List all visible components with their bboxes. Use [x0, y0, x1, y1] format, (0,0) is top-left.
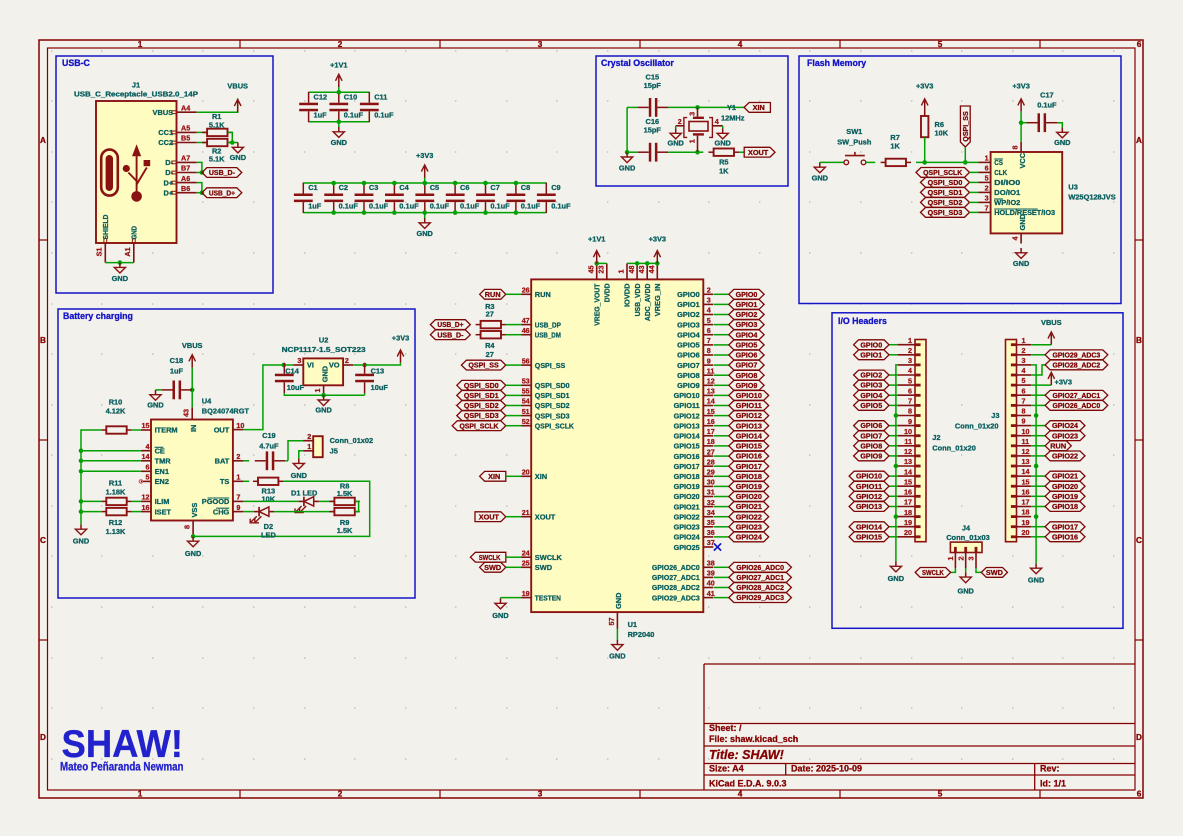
wire D+ B6 [197, 192, 202, 194]
junction C16 gnd [625, 150, 630, 155]
wire J2 pin6 [889, 394, 898, 396]
svg-text:GPIO4: GPIO4 [736, 330, 759, 339]
svg-text:+1V1: +1V1 [588, 234, 605, 243]
U1 pin 14 GPIO11 [674, 397, 715, 411]
svg-text:USB_DM: USB_DM [535, 330, 561, 339]
svg-text:27: 27 [486, 310, 494, 319]
U1 pin 19 TESTEN [521, 589, 561, 603]
resistor R7 [881, 133, 911, 166]
svg-text:A: A [40, 136, 46, 145]
LED D2 [250, 507, 276, 540]
U1 pin 48 USB_VDD [627, 263, 642, 316]
svg-text:34: 34 [707, 508, 715, 517]
J1 pin A4 VBUS [153, 103, 197, 117]
svg-text:16: 16 [904, 488, 912, 497]
net label USB_D+ (USB-C) [202, 188, 242, 198]
svg-text:NCP1117-1.5_SOT223: NCP1117-1.5_SOT223 [282, 345, 366, 354]
junction J1 gnd [118, 260, 123, 265]
svg-text:20: 20 [1022, 528, 1030, 537]
wire QSPI_SD1 to U3 [970, 191, 979, 193]
svg-text:GPIO24: GPIO24 [1052, 421, 1079, 430]
U1 pin 18 GPIO15 [674, 437, 715, 451]
U1 pin 23 DVDD [597, 263, 612, 302]
svg-text:IOVDD: IOVDD [623, 283, 632, 307]
svg-text:GPIO27_ADC1: GPIO27_ADC1 [736, 573, 784, 582]
U1 pin 21 XOUT [521, 508, 556, 522]
svg-text:C6: C6 [460, 183, 469, 192]
ground J4 [957, 572, 974, 595]
wire J2 pin13 gnd [896, 465, 898, 467]
wire J2 pin5 [889, 384, 898, 386]
svg-text:J4: J4 [962, 524, 971, 533]
svg-text:19: 19 [1022, 518, 1030, 527]
svg-text:GPIO17: GPIO17 [736, 462, 762, 471]
crystal pin 3 [687, 107, 697, 116]
svg-text:GPIO18: GPIO18 [736, 472, 762, 481]
svg-text:40: 40 [707, 579, 715, 588]
svg-text:VCC: VCC [1018, 152, 1027, 168]
U1 pin 7 GPIO5 [677, 336, 713, 350]
svg-text:18: 18 [904, 508, 912, 517]
svg-text:QSPI_SD3: QSPI_SD3 [928, 208, 963, 217]
U1 pin 37 GPIO25 [674, 538, 715, 552]
svg-text:GPIO13: GPIO13 [856, 502, 882, 511]
svg-text:1: 1 [946, 557, 955, 561]
svg-text:56: 56 [522, 356, 530, 365]
svg-text:4: 4 [908, 366, 912, 375]
svg-text:8: 8 [1011, 146, 1020, 150]
svg-text:+3V3: +3V3 [1012, 82, 1029, 91]
svg-text:W25Q128JVS: W25Q128JVS [1068, 192, 1115, 201]
svg-text:GPIO23: GPIO23 [674, 523, 700, 532]
wire GPIO28_ADC2 [714, 587, 729, 589]
wire R4 to USB_DM [506, 334, 521, 336]
J2 pin 2 [898, 346, 915, 355]
net label USB_D- (USB-C) [202, 168, 242, 178]
junction 3V3 c [655, 261, 660, 266]
net label GPIO18 (J3) [1045, 502, 1085, 512]
junction +1V1 top [337, 90, 342, 95]
U1 pin 53 QSPI_SD0 [521, 377, 570, 391]
svg-text:14: 14 [707, 397, 715, 406]
svg-text:3: 3 [538, 790, 543, 799]
svg-text:VBUS: VBUS [153, 108, 174, 117]
svg-text:J5: J5 [330, 447, 338, 456]
svg-text:C5: C5 [430, 183, 439, 192]
junction top rail [392, 181, 397, 186]
svg-text:QSPI_SD1: QSPI_SD1 [928, 188, 963, 197]
svg-text:USB_VDD: USB_VDD [633, 283, 642, 317]
net label USB_D+ (U1) [430, 320, 470, 330]
svg-text:39: 39 [707, 569, 715, 578]
junction bottom rail [362, 210, 367, 215]
junction top rail [514, 181, 519, 186]
svg-text:20: 20 [904, 528, 912, 537]
svg-text:GPIO18: GPIO18 [1052, 502, 1078, 511]
net label GPIO11 (J2) [849, 481, 889, 491]
logo SHAW! [60, 723, 184, 774]
resistor R4 [476, 331, 506, 359]
svg-text:0.1uF: 0.1uF [430, 201, 450, 210]
svg-text:QSPI_SD2: QSPI_SD2 [535, 401, 570, 410]
svg-text:1uF: 1uF [170, 367, 184, 376]
wire +3V3 top rail [303, 182, 546, 184]
wire bottom rail U2 [284, 393, 364, 395]
U2 pin 3 VI [293, 356, 314, 370]
capacitor C2 [324, 183, 358, 213]
svg-text:QSPI_SCLK: QSPI_SCLK [535, 421, 575, 430]
J3 pin 10 [1017, 427, 1032, 436]
resistor R13 [253, 478, 283, 504]
U1 ref text [628, 620, 655, 639]
svg-text:GND: GND [888, 574, 905, 583]
svg-text:C11: C11 [374, 92, 387, 101]
net label GPIO27_ADC1 (J3) [1045, 390, 1108, 400]
U4 pin 7 PGOOD [202, 493, 243, 507]
svg-text:2: 2 [236, 452, 240, 461]
wire J4 pin3 SWD [976, 568, 981, 572]
svg-text:C14: C14 [285, 367, 299, 376]
U1 pin 4 GPIO2 [677, 306, 713, 320]
wire U1 left k10 [506, 394, 521, 396]
svg-text:0.1uF: 0.1uF [490, 201, 510, 210]
svg-text:C: C [1136, 536, 1142, 545]
svg-text:1.13K: 1.13K [106, 527, 126, 536]
J3 pin 8 [1017, 407, 1032, 416]
U3 pin 1 CS [979, 154, 1003, 168]
svg-text:XOUT: XOUT [748, 148, 769, 157]
svg-text:QSPI_SCLK: QSPI_SCLK [923, 168, 963, 177]
wire J2 pin20 [889, 536, 898, 538]
U1 pin 6 GPIO4 [677, 326, 713, 340]
wire GPIO3 [714, 324, 729, 326]
U3 pin 8 VCC [1011, 142, 1027, 169]
wire J3 pin4 jog to GPIO28_ADC2 [1031, 365, 1045, 375]
svg-text:48: 48 [627, 266, 636, 274]
svg-text:9: 9 [1022, 417, 1026, 426]
net label GPIO28_ADC2 (U1) [729, 583, 792, 593]
wire J2 pin8 gnd [896, 415, 898, 417]
net label XOUT (crystal) [744, 147, 775, 157]
wire J5 pin1 gnd [299, 451, 303, 459]
svg-text:GPIO1: GPIO1 [677, 300, 700, 309]
svg-text:GND: GND [609, 651, 626, 660]
svg-text:0.1uF: 0.1uF [1037, 101, 1057, 110]
wire to R5 [698, 151, 704, 153]
svg-text:GPIO7: GPIO7 [677, 361, 700, 370]
section box Crystal Oscillator [596, 56, 788, 186]
J3 pin 3 [1017, 356, 1032, 365]
J1 pin B6 D+ [163, 184, 196, 198]
svg-text:B: B [1136, 336, 1142, 345]
wire J3 pin17 [1031, 506, 1045, 508]
svg-text:C19: C19 [262, 431, 276, 440]
LED D1 [291, 488, 319, 512]
U1 pin 3 GPIO1 [677, 296, 713, 310]
svg-text:GND: GND [957, 587, 974, 596]
U1 pin 28 GPIO17 [674, 457, 715, 471]
resistor R10 [101, 397, 131, 433]
J3 pin 7 [1017, 397, 1032, 406]
U1 pin 27 GPIO16 [674, 447, 715, 461]
junction QSPI_SS [963, 160, 968, 165]
svg-text:7: 7 [236, 493, 240, 502]
svg-text:19: 19 [904, 518, 912, 527]
junction U2 gnd [321, 393, 326, 398]
wire +1V1 rail U1 [597, 262, 607, 264]
junction J3 pin18 [1034, 514, 1039, 519]
charger U4 body [151, 420, 233, 521]
svg-text:GND: GND [619, 163, 636, 172]
power +3V3 U3 [1012, 82, 1029, 112]
connector J4 body [946, 524, 990, 553]
wire J2 pin10 [889, 435, 898, 437]
resistor R3 [476, 302, 506, 328]
svg-text:QSPI_SCLK: QSPI_SCLK [459, 421, 499, 430]
J3 pin 19 [1017, 518, 1032, 527]
svg-text:GPIO3: GPIO3 [677, 320, 700, 329]
svg-text:GPIO20: GPIO20 [736, 492, 762, 501]
capacitor C7 [476, 183, 510, 213]
svg-text:GPIO10: GPIO10 [856, 472, 882, 481]
U3 ref text [1068, 182, 1115, 201]
net label GPIO29_ADC3 (J3) [1045, 350, 1108, 360]
wire GPIO0 [714, 293, 729, 295]
svg-text:Mateo Peñaranda Newman: Mateo Peñaranda Newman [60, 759, 184, 773]
svg-text:12: 12 [1022, 447, 1030, 456]
crystal Y1 [684, 117, 713, 138]
J3 pin 20 [1017, 528, 1032, 537]
U3 pin 2 DO/IO1 [979, 184, 1021, 198]
U1 pin 36 GPIO24 [674, 528, 715, 542]
ground U4 [185, 536, 202, 558]
J3 pin 2 [1017, 346, 1032, 355]
junction C13 [362, 363, 367, 368]
svg-text:C13: C13 [371, 367, 385, 376]
wire GPIO17 [714, 465, 729, 467]
svg-text:GPIO0: GPIO0 [736, 290, 758, 299]
capacitor C5 [415, 183, 449, 213]
wire QSPI_SD3 to U3 [970, 211, 979, 213]
svg-text:C1: C1 [308, 183, 317, 192]
svg-text:10: 10 [904, 427, 912, 436]
svg-text:1: 1 [1022, 336, 1026, 345]
wire +3V3 bottom rail [303, 212, 546, 214]
svg-text:VBUS: VBUS [1041, 318, 1062, 327]
wire J3 VBUS [1031, 344, 1051, 346]
U4 pin 12 ILIM [141, 493, 169, 507]
svg-text:10uF: 10uF [371, 383, 389, 392]
svg-text:1: 1 [687, 139, 696, 143]
svg-text:2: 2 [1022, 346, 1026, 355]
svg-text:51: 51 [522, 407, 530, 416]
svg-text:4.12K: 4.12K [106, 406, 126, 415]
svg-text:D: D [40, 733, 46, 742]
wire J3 pin20 [1031, 536, 1045, 538]
svg-text:QSPI_SD1: QSPI_SD1 [464, 391, 499, 400]
net label QSPI_SD2 (flash) [921, 198, 970, 208]
svg-text:GND: GND [230, 153, 247, 162]
svg-text:0.1uF: 0.1uF [369, 201, 389, 210]
svg-text:QSPI_SD2: QSPI_SD2 [928, 198, 963, 207]
net label QSPI_SD1 (U1) [457, 391, 506, 401]
svg-text:XOUT: XOUT [535, 512, 556, 521]
power VBUS USB-C [227, 82, 248, 113]
wire GPIO16 [714, 455, 729, 457]
J3 pin 4 [1017, 366, 1032, 375]
svg-text:2: 2 [345, 356, 349, 365]
wire GPIO24 [714, 536, 729, 538]
U1 pin 29 GPIO18 [674, 468, 715, 482]
J2 pin 5 [898, 376, 915, 385]
wire GPIO9 [714, 384, 729, 386]
svg-text:XIN: XIN [535, 472, 547, 481]
svg-text:GPIO9: GPIO9 [677, 381, 700, 390]
U3 pin 6 CLK [979, 164, 1008, 178]
U4 pin 15 ITERM [141, 421, 178, 435]
wire J3 pin6 [1031, 394, 1045, 396]
wire VBUS to IN [191, 368, 193, 408]
U2 pin 2 VO [329, 356, 353, 370]
svg-text:GPIO27_ADC1: GPIO27_ADC1 [652, 573, 700, 582]
svg-text:CLK: CLK [994, 168, 1008, 177]
U1 pin 47 USB_DP [521, 316, 561, 330]
no-connect EN2 [139, 480, 142, 483]
ground J2 [888, 562, 905, 584]
svg-text:GPIO17: GPIO17 [674, 462, 700, 471]
svg-text:GND: GND [1013, 259, 1030, 268]
svg-text:9: 9 [236, 503, 240, 512]
resistor R2 [202, 139, 232, 164]
svg-text:C18: C18 [170, 356, 184, 365]
wire J3 pin12 [1031, 455, 1045, 457]
J3 pin 13 [1017, 457, 1032, 466]
wire R8 R9 tie [355, 501, 358, 511]
svg-text:RUN: RUN [485, 290, 501, 299]
svg-text:6: 6 [1137, 40, 1142, 49]
svg-text:C8: C8 [521, 183, 530, 192]
U2 pin 1 GND [313, 365, 329, 395]
svg-text:USB_D-: USB_D- [209, 168, 236, 177]
net label RUN (J3) [1045, 441, 1071, 451]
svg-text:2: 2 [985, 184, 989, 193]
svg-text:B6: B6 [181, 184, 190, 193]
svg-text:3: 3 [538, 40, 543, 49]
junction C17 [1019, 120, 1024, 125]
svg-text:12: 12 [707, 377, 715, 386]
J2 pin 19 [898, 518, 915, 527]
svg-text:8: 8 [1022, 407, 1026, 416]
wire gnd to C18 [156, 389, 162, 391]
svg-text:QSPI_SD0: QSPI_SD0 [464, 381, 499, 390]
J3 pin 16 [1017, 487, 1032, 496]
U1 pin 38 GPIO26_ADC0 [652, 559, 715, 573]
net label GPIO24 (J3) [1045, 421, 1085, 431]
svg-text:11: 11 [707, 366, 715, 375]
capacitor C13 [355, 363, 388, 393]
net label GPIO19 (U1) [729, 482, 769, 492]
U4 pin 6 EN1 [141, 463, 169, 477]
wire GPIO15 [714, 445, 729, 447]
svg-text:2: 2 [338, 790, 343, 799]
capacitor C3 [355, 183, 389, 213]
svg-text:XIN: XIN [488, 472, 500, 481]
svg-text:GPIO21: GPIO21 [1052, 472, 1078, 481]
power +3V3 R6 [916, 82, 933, 112]
svg-text:EN2: EN2 [155, 477, 169, 486]
junction +1V1 U1 [594, 261, 599, 266]
svg-text:0.1uF: 0.1uF [399, 201, 419, 210]
svg-text:7: 7 [1022, 397, 1026, 406]
capacitor C12 [299, 92, 327, 122]
svg-text:GPIO11: GPIO11 [856, 482, 882, 491]
svg-text:B: B [40, 336, 46, 345]
wire J2 pin1 [889, 344, 898, 346]
U1 pin 43 ADC_AVDD [637, 263, 652, 321]
ground crystal pin4 [714, 129, 731, 148]
wire CC2 to R2 [197, 142, 207, 144]
U1 pin 5 GPIO3 [677, 316, 713, 330]
svg-text:6: 6 [908, 386, 912, 395]
net label GPIO4 (U1) [729, 330, 764, 340]
net label GPIO1 (J2) [854, 350, 889, 360]
wire +3V3 to R6 [924, 112, 926, 116]
svg-text:Conn_01x20: Conn_01x20 [932, 443, 976, 452]
svg-text:GPIO2: GPIO2 [860, 371, 882, 380]
svg-text:7: 7 [707, 336, 711, 345]
net label GPIO29_ADC3 (U1) [729, 593, 792, 603]
svg-text:5.1K: 5.1K [209, 120, 225, 129]
U1 pin 11 GPIO8 [677, 366, 714, 380]
net label XIN (crystal) [744, 103, 770, 113]
svg-text:2: 2 [908, 346, 912, 355]
junction +1V1 bottom [337, 119, 342, 124]
title block [704, 664, 1135, 790]
svg-text:GPIO13: GPIO13 [674, 421, 700, 430]
U3 pin 5 DI/IO0 [979, 174, 1021, 188]
J2 pin 20 [898, 528, 915, 537]
svg-text:16: 16 [1022, 487, 1030, 496]
wire PGOOD to D1 [243, 500, 299, 502]
svg-text:Y1: Y1 [727, 103, 736, 112]
svg-text:GND: GND [185, 549, 202, 558]
svg-text:GPIO29_ADC3: GPIO29_ADC3 [1053, 350, 1101, 359]
wire J2 pin9 [889, 425, 898, 427]
svg-text:C12: C12 [314, 92, 328, 101]
svg-text:Crystal Oscillator: Crystal Oscillator [601, 58, 674, 68]
U4 pin 14 TMR [141, 452, 171, 466]
U1 pin 41 GPIO29_ADC3 [652, 589, 715, 603]
svg-text:2: 2 [678, 117, 682, 126]
net label GPIO16 (J3) [1045, 532, 1085, 542]
junction rail [79, 448, 84, 453]
net label GPIO0 (J2) [854, 340, 889, 350]
svg-text:ITERM: ITERM [155, 426, 178, 435]
svg-text:5: 5 [938, 40, 943, 49]
net label GPIO23 (J3) [1045, 431, 1085, 441]
wire J3 pin16 [1031, 495, 1045, 497]
svg-text:R12: R12 [109, 518, 123, 527]
svg-text:0.1uF: 0.1uF [460, 201, 480, 210]
capacitor C16 [638, 117, 668, 162]
net label GPIO10 (U1) [729, 391, 769, 401]
svg-text:GPIO1: GPIO1 [860, 350, 882, 359]
svg-text:GPIO11: GPIO11 [674, 401, 700, 410]
svg-text:0.1uF: 0.1uF [374, 111, 394, 120]
wire J2 pin12 [889, 455, 898, 457]
svg-text:J2: J2 [932, 433, 940, 442]
svg-text:11: 11 [1022, 437, 1030, 446]
